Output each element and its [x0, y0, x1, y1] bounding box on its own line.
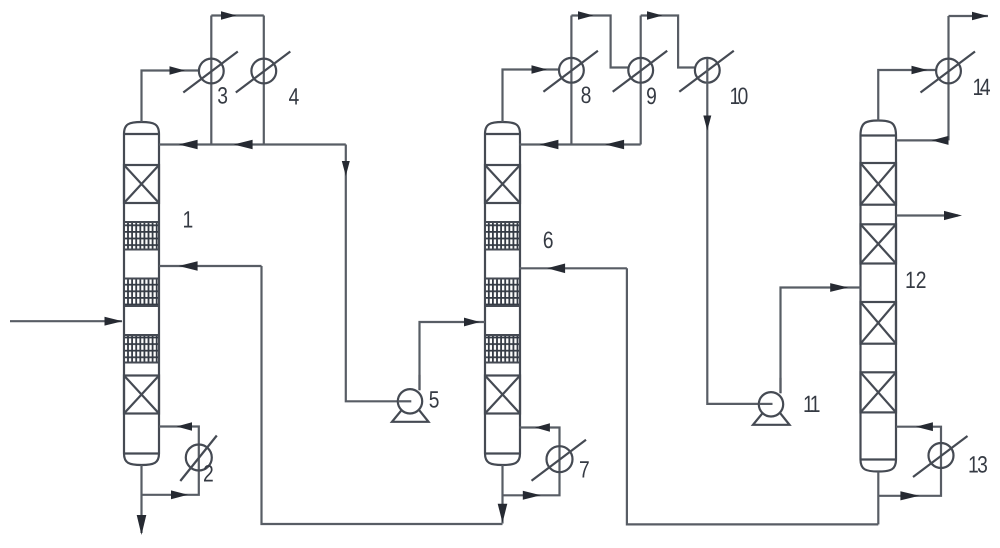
reboiler E7	[532, 440, 587, 481]
label 1	[184, 211, 192, 227]
wire: pump 11 suction dash	[759, 403, 772, 405]
pump 11 discharge nozzle	[779, 378, 781, 394]
pump 5 discharge nozzle	[418, 375, 420, 391]
wire: column 12 overhead vapor riser	[878, 66, 936, 121]
column 12 structured packing X2	[861, 224, 897, 263]
column 6 tray mesh 3	[485, 335, 520, 363]
wire: recycle entry into column 1	[159, 261, 262, 271]
column 12 structured packing X3	[861, 302, 897, 344]
label 2	[204, 465, 213, 482]
reboiler E13	[913, 436, 968, 477]
label 13	[969, 456, 987, 473]
pump 5 base	[392, 399, 429, 422]
condenser E3	[183, 52, 238, 93]
column 12 structured packing X1	[861, 163, 897, 205]
wire: column 6 reboiler loop	[503, 423, 560, 500]
wire: fresh feed into column 1	[10, 317, 123, 326]
label 10	[731, 88, 748, 105]
column 6 structured packing X1	[485, 165, 520, 203]
pump 5 casing	[398, 389, 422, 413]
column 1 shell	[124, 122, 159, 465]
label 3	[218, 87, 227, 104]
wire: recycle entry into column 6	[519, 264, 627, 274]
wire: E14 vertical line	[947, 16, 949, 140]
wire: column 1 bottoms product out	[137, 465, 147, 535]
wire: column 12 bottoms recycle to column 6	[627, 268, 878, 524]
wire: column 1 overhead vapor riser	[142, 66, 199, 122]
wire: E9 to E10 top line	[641, 11, 695, 67]
column 1 structured packing X2	[124, 376, 159, 414]
label 4	[289, 88, 299, 104]
wire: distillate downcomer to pump 5	[342, 145, 398, 402]
column 12 structured packing X4	[861, 372, 897, 412]
condenser E9	[613, 51, 668, 92]
wire: pump 5 discharge to column 6	[420, 318, 486, 390]
column 6 structured packing X2	[485, 376, 520, 414]
condenser E10	[679, 51, 734, 92]
wire: E3 vertical line	[210, 16, 212, 145]
label 14	[974, 79, 990, 95]
wire: E8 to E9 top line	[571, 11, 628, 67]
column 6 tray mesh 1	[485, 222, 520, 250]
label 7	[580, 461, 589, 477]
column 1 tray mesh 3	[124, 335, 159, 363]
pump 11 casing	[759, 392, 783, 416]
wire: column 6 bottoms downcomer	[498, 465, 508, 524]
wire: E8 vertical line	[570, 16, 572, 145]
column 1 tray mesh 2	[124, 279, 159, 307]
pump 11 base	[753, 402, 790, 425]
label 8	[581, 87, 590, 104]
wire: column 6 bottoms recycle to column 1	[262, 266, 503, 524]
wire: column 6 overhead vapor riser	[503, 65, 560, 122]
column 1 tray mesh 1	[124, 222, 159, 250]
reboiler E2	[180, 436, 217, 482]
label 9	[647, 88, 656, 105]
condenser E8	[543, 51, 598, 92]
label 5	[430, 391, 439, 407]
wire: column 1 reboiler loop	[142, 422, 199, 499]
column 12 shell	[861, 121, 897, 472]
wire: E10 outlet down to pump 11	[703, 59, 759, 404]
wire: E9 vertical line	[640, 16, 642, 145]
wire: reflux return line to column 6	[519, 140, 640, 150]
condenser E14	[921, 52, 976, 93]
wire: E4 vertical line	[263, 16, 265, 145]
wire: column 12 bottoms downcomer	[877, 472, 879, 525]
wire: pump 5 suction dash	[398, 400, 411, 402]
label 12	[906, 272, 925, 289]
wire: reflux return line to column 1	[159, 140, 346, 150]
wire: column 12 side product draw	[896, 211, 962, 220]
wire: pump 11 discharge to column 12	[781, 283, 861, 392]
label 11	[804, 396, 819, 412]
column 6 tray mesh 2	[485, 279, 520, 307]
wire: E14 top product out	[949, 12, 989, 20]
wire: E3 to E4 top line	[211, 11, 263, 19]
wire: column 12 reboiler loop	[878, 422, 941, 500]
label 6	[544, 232, 553, 249]
condenser E4	[236, 52, 290, 93]
wire: E14 reflux return to column 12	[896, 136, 949, 145]
column 6 shell	[485, 122, 520, 465]
column 1 structured packing X1	[124, 165, 159, 203]
